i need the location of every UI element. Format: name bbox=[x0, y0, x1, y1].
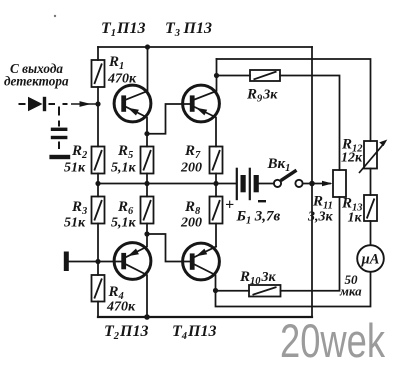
R11 wiper arrow bbox=[322, 181, 333, 186]
resistor R11 3.3k box bbox=[333, 170, 346, 197]
resistor R13 1k box bbox=[364, 195, 377, 221]
svg-text:Т2П13: Т2П13 bbox=[104, 323, 148, 342]
svg-text:51к: 51к bbox=[64, 216, 86, 231]
wire left rail bbox=[97, 47, 99, 317]
svg-text:Б13,7в: Б13,7в bbox=[236, 209, 281, 227]
svg-text:20wek: 20wek bbox=[280, 314, 385, 367]
svg-text:R1: R1 bbox=[108, 54, 124, 72]
svg-text:3,3к: 3,3к bbox=[307, 210, 334, 225]
svg-text:1к: 1к bbox=[348, 211, 363, 226]
wire T3 emitter down to R7 bbox=[195, 107, 216, 147]
T3 emitter arrowhead bbox=[196, 108, 207, 116]
wire R9 row bbox=[217, 76, 340, 171]
transistor T3 bbox=[183, 85, 220, 122]
wire R5 leads bbox=[146, 134, 148, 184]
svg-text:5,1к: 5,1к bbox=[111, 216, 137, 231]
scan speck bbox=[54, 15, 56, 17]
wire T4 collector lead bbox=[195, 265, 216, 291]
battery B1 3.7v bbox=[236, 168, 259, 201]
wire meter column links bbox=[370, 169, 372, 246]
label battery minus bbox=[258, 200, 266, 202]
wire R8 leads bbox=[215, 184, 217, 247]
svg-text:+: + bbox=[225, 197, 234, 214]
svg-text:R8: R8 bbox=[184, 199, 201, 217]
microammeter bbox=[357, 245, 384, 272]
svg-text:R2: R2 bbox=[71, 143, 88, 161]
resistor R2 51k box bbox=[92, 147, 105, 174]
input dashed wire with diode bbox=[19, 104, 68, 149]
svg-text:R6: R6 bbox=[117, 199, 134, 217]
ground chassis bar below capacitor bbox=[49, 155, 70, 159]
wire R6 leads bbox=[146, 184, 148, 235]
svg-text:Т1П13: Т1П13 bbox=[101, 20, 145, 39]
wire battery to switch bbox=[259, 183, 274, 185]
ground chassis bar at T2 base bbox=[64, 252, 69, 272]
wire T3 collector up bbox=[195, 59, 217, 100]
svg-text:5,1к: 5,1к bbox=[111, 161, 137, 176]
svg-text:200: 200 bbox=[180, 161, 202, 176]
svg-text:μA: μA bbox=[361, 252, 380, 268]
resistor R4 470k box bbox=[92, 275, 105, 302]
wire R7 bottom bbox=[215, 174, 217, 184]
resistor R6 5.1k box bbox=[141, 197, 154, 224]
wire T1 emitter lead bbox=[126, 107, 147, 134]
svg-text:R5: R5 bbox=[117, 143, 133, 161]
wire T1 emitter to T3 base link bbox=[147, 104, 190, 134]
svg-text:R93к: R93к bbox=[246, 87, 278, 105]
svg-text:12к: 12к bbox=[341, 151, 363, 166]
resistor R12 12k box bbox=[364, 141, 377, 169]
wire right rail x312 bbox=[311, 47, 313, 317]
svg-text:Т4П13: Т4П13 bbox=[172, 323, 216, 342]
resistor R9 3k box horizontal bbox=[250, 70, 280, 81]
transistor T4 bbox=[183, 243, 220, 280]
wire T1 collector to top bbox=[126, 47, 147, 100]
svg-text:R3: R3 bbox=[71, 199, 87, 217]
svg-text:470к: 470к bbox=[106, 300, 136, 315]
svg-text:Т3П13: Т3П13 bbox=[165, 20, 212, 39]
svg-text:470к: 470к bbox=[107, 72, 137, 87]
coupling capacitor plates bbox=[51, 128, 68, 131]
wire R10 row bbox=[216, 197, 340, 291]
wire y59 T3 collector to R12 column bbox=[217, 59, 371, 141]
svg-text:51к: 51к bbox=[64, 161, 86, 176]
T2 emitter arrowhead bbox=[128, 249, 139, 257]
wire mid rail bbox=[98, 183, 236, 185]
resistor R3 51k box bbox=[92, 197, 105, 224]
resistor R1 470k box bbox=[92, 60, 105, 87]
wire bottom rail bbox=[98, 316, 312, 318]
wire T2 base bbox=[69, 261, 122, 263]
wire switch to R11 bbox=[304, 183, 331, 185]
resistor R5 5.1k box bbox=[141, 147, 154, 174]
wire T4 collector to meter bottom bbox=[216, 272, 371, 307]
input signal arrow to T1 base node bbox=[71, 103, 98, 105]
svg-text:Вк1: Вк1 bbox=[267, 156, 291, 174]
svg-text:детектора: детектора bbox=[4, 74, 69, 89]
T4 emitter arrowhead bbox=[196, 249, 207, 257]
potentiometer R12 arrow bbox=[359, 140, 387, 174]
transistor T2 bbox=[114, 243, 151, 280]
wire T2-T4 link bbox=[147, 234, 190, 262]
resistor R10 3k box horizontal bbox=[249, 285, 281, 297]
switch Vk1 bbox=[274, 170, 303, 187]
wire T4 emitter lead bbox=[195, 247, 216, 257]
svg-text:мка: мка bbox=[339, 284, 362, 299]
svg-text:R103к: R103к bbox=[239, 269, 277, 287]
svg-text:200: 200 bbox=[180, 216, 202, 231]
svg-text:R7: R7 bbox=[184, 143, 201, 161]
resistor R8 200 box bbox=[210, 197, 223, 224]
transistor T1 bbox=[114, 85, 151, 122]
wire T2 emitter lead bbox=[126, 234, 147, 257]
wire top rail bbox=[98, 46, 312, 48]
resistor R7 200 box bbox=[210, 147, 223, 174]
T1 emitter arrowhead bbox=[128, 108, 139, 116]
detector diode bbox=[28, 97, 43, 111]
wire T2 collector down bbox=[126, 265, 147, 318]
